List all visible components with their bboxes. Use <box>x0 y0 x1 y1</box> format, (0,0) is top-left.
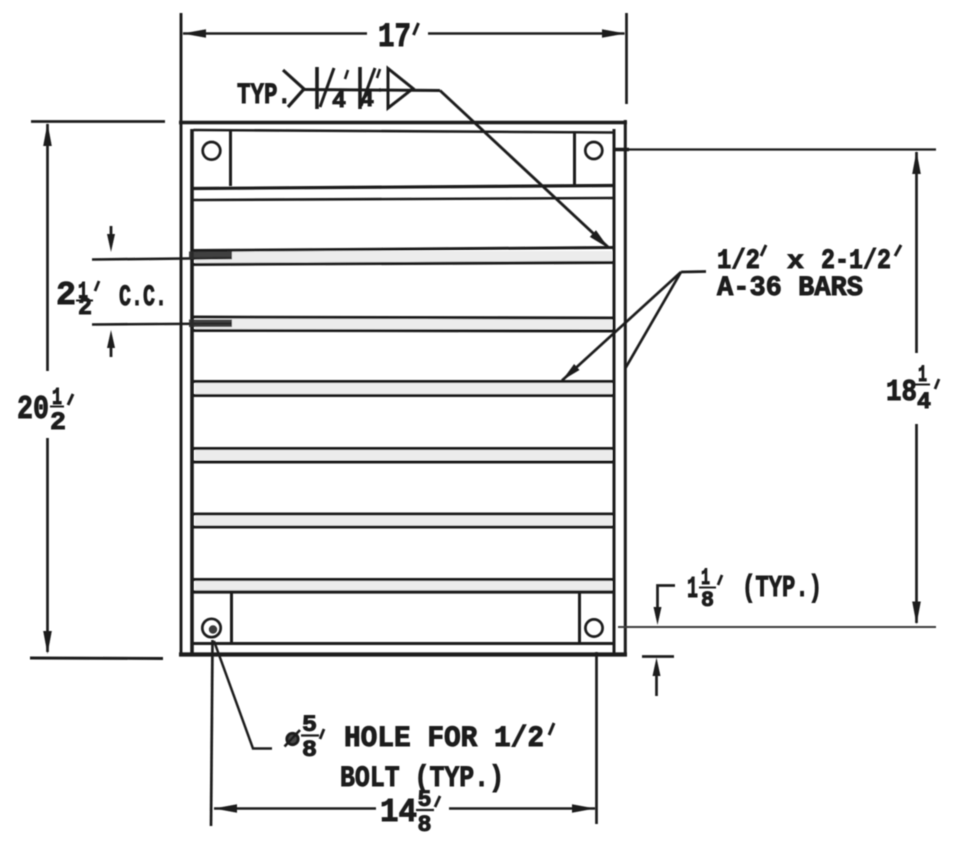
top bearing bar left divider <box>229 131 232 186</box>
frame left outer edge (extends up as 17in extension line) <box>180 13 183 656</box>
svg-text:5: 5 <box>302 712 317 738</box>
frame top edge <box>179 121 627 125</box>
svg-text:x: x <box>787 247 804 276</box>
dimension 14-5/8in left extension line <box>211 640 213 826</box>
bar 1 bottom line <box>194 198 614 200</box>
dimension 1-1/8in down arrowhead <box>654 607 662 625</box>
dimension 18-1/4in bottom extension line <box>618 626 936 628</box>
bottom bearing bar top line <box>194 590 614 593</box>
dimension 2-1/2in C.C. lower arrow <box>110 344 113 357</box>
weld symbol tail chevron <box>283 70 304 107</box>
svg-text:8: 8 <box>302 737 317 763</box>
dimension 14-5/8in right arrowhead <box>572 804 595 813</box>
dimension 18-1/4in line upper segment <box>915 152 918 353</box>
diameter symbol <box>287 733 298 744</box>
dimension 20-1/2in line lower segment <box>46 438 49 652</box>
svg-text:18: 18 <box>886 375 917 410</box>
frame bottom edge <box>179 652 627 656</box>
svg-text:8: 8 <box>418 812 432 838</box>
svg-text:4: 4 <box>917 389 931 415</box>
bar 2 <box>195 251 612 263</box>
dimension 18-1/4in down arrowhead <box>912 602 921 625</box>
dimension 14-5/8in left arrowhead <box>214 804 237 813</box>
weld symbol fillet triangle <box>388 69 413 109</box>
svg-text:4: 4 <box>332 88 346 114</box>
dimension 18-1/4in top extension line <box>615 148 936 150</box>
bar 6 <box>195 515 612 526</box>
dimension 18-1/4in line lower segment <box>915 424 918 623</box>
svg-text:17: 17 <box>378 19 411 57</box>
svg-text:TYP.: TYP. <box>237 79 291 113</box>
frame left inner edge <box>190 129 194 655</box>
dimension 2-1/2in C.C. upper arrow <box>110 226 113 240</box>
bar 5 <box>195 449 612 460</box>
weld symbol reference line <box>304 90 440 91</box>
A-36 leader to right edge <box>626 272 682 368</box>
svg-text:14: 14 <box>380 794 417 831</box>
dimension 14-5/8in right extension line <box>595 652 598 824</box>
svg-text:HOLE FOR 1/2: HOLE FOR 1/2 <box>344 722 544 756</box>
svg-text:20: 20 <box>17 391 49 428</box>
frame right outer edge <box>624 120 627 655</box>
dimension 14-5/8in line left segment <box>214 807 376 810</box>
dimension 17in line left segment <box>183 32 367 35</box>
svg-text:4: 4 <box>360 87 374 113</box>
dimension 1-1/8in lower line <box>655 672 658 696</box>
A-36 leader to bar 4 <box>562 272 681 381</box>
dimension 18-1/4in up arrowhead <box>912 151 921 174</box>
dimension 1-1/8in upper bracket <box>658 586 676 613</box>
bolt hole bottom-left <box>202 619 220 637</box>
weld symbol first 1/4 fraction <box>315 67 319 109</box>
svg-text:1: 1 <box>687 572 698 607</box>
weld leader line to frame <box>440 91 609 249</box>
weld symbol second 1/4 fraction <box>358 67 362 109</box>
frame right inner edge <box>613 129 616 655</box>
dimension 2-1/2in C.C. lower extension line <box>92 324 232 325</box>
top bearing bar bottom line <box>194 186 614 189</box>
top bearing bar top line <box>194 130 614 133</box>
svg-text:8: 8 <box>701 588 714 613</box>
A-36 leader arrowhead <box>562 364 580 381</box>
A-36 leader elbow <box>681 270 706 273</box>
dimension 17in line right segment <box>428 32 625 35</box>
bar 7 <box>195 580 612 591</box>
bar 3 <box>195 318 612 330</box>
dimension 14-5/8in line right segment <box>449 807 595 810</box>
svg-text:2: 2 <box>56 277 76 314</box>
dimension 2-1/2in C.C. upper extension line <box>92 258 232 260</box>
top bearing bar right divider <box>573 131 576 186</box>
dimension 20-1/2in up arrowhead <box>43 123 52 146</box>
svg-text:2: 2 <box>50 408 66 437</box>
bolt hole bottom-right <box>585 619 602 636</box>
bolt hole top-left <box>203 142 221 160</box>
bottom bearing bar bottom line <box>194 642 614 645</box>
svg-text:2: 2 <box>78 295 92 322</box>
svg-text:(TYP.): (TYP.) <box>742 571 822 606</box>
svg-text:C.C.: C.C. <box>119 281 167 315</box>
dimension 1-1/8in lower tick <box>642 655 674 658</box>
dimension 1-1/8in up arrowhead <box>653 658 661 677</box>
dimension 20-1/2in bottom extension line <box>30 657 163 660</box>
svg-text:A-36 BARS: A-36 BARS <box>717 273 863 304</box>
dimension 17in extension line right <box>625 13 628 104</box>
bolt hole leader line <box>214 641 272 749</box>
dimension 17in left arrowhead <box>183 29 207 38</box>
dimension 17in right arrowhead <box>602 29 626 38</box>
dimension 20-1/2in down arrowhead <box>43 631 52 654</box>
weld leader arrowhead <box>590 230 609 248</box>
dimension 20-1/2in line upper segment <box>46 124 49 371</box>
bottom bearing bar right divider <box>578 592 581 644</box>
bolt hole top-right <box>585 142 602 159</box>
bar 4 <box>195 383 612 394</box>
bottom bearing bar left divider <box>230 592 233 644</box>
dimension 20-1/2in top extension line <box>31 120 165 123</box>
